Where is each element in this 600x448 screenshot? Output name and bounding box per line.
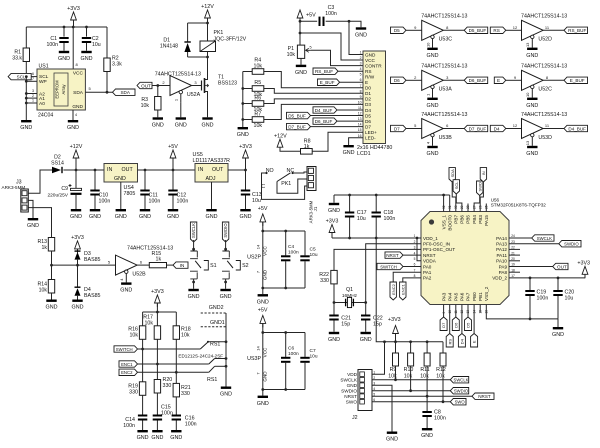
wire input node [50,264,115,267]
svg-text:13: 13 [525,42,530,47]
wire J3 pin3 input [28,208,51,238]
svg-text:GND: GND [175,123,187,129]
ground U52B enable [120,282,132,293]
svg-text:14: 14 [255,244,260,249]
svg-text:+3V3: +3V3 [577,260,590,266]
net tag ENC2 (MCU) [390,272,421,300]
svg-text:D1: D1 [365,91,371,96]
transistor T1 BSS123 [192,57,238,117]
svg-text:GND: GND [220,392,232,398]
wire PF0 to crystal [366,244,421,303]
resistor R11 [420,342,430,396]
svg-text:D4: D4 [365,108,371,113]
svg-text:100n: 100n [384,216,396,222]
ground address pins [20,120,32,131]
svg-text:15: 15 [358,128,362,132]
svg-text:16MHz: 16MHz [342,293,358,299]
svg-text:PK1: PK1 [214,30,224,36]
ground J2 [386,432,398,443]
net tag D4 (input U53D) [490,125,521,131]
svg-text:7: 7 [32,77,34,81]
svg-text:33.k: 33.k [12,56,22,62]
svg-text:SWO: SWO [455,400,466,405]
svg-text:PF0-OSC_IN: PF0-OSC_IN [423,242,450,247]
wire VDDA tie [417,238,421,261]
ground U52D enable [526,48,538,59]
wire +3V3 rail EEPROM [26,26,107,28]
wire buffer out [137,264,149,266]
diode D1 1N4148 [160,23,191,57]
svg-text:OUT: OUT [212,167,224,173]
svg-text:SDA: SDA [120,90,130,95]
svg-text:GND: GND [360,337,372,343]
svg-text:2: 2 [32,94,34,98]
wire US5 ADJ [211,182,213,209]
wire R5 to D1 [264,89,363,94]
ground US5 [206,209,218,220]
ground VSS_2 [552,327,564,338]
svg-text:GND: GND [328,208,340,214]
svg-text:ENC1: ENC1 [121,362,133,367]
ground U53A enable [427,98,439,109]
svg-text:5: 5 [310,45,312,49]
svg-text:+5V: +5V [306,13,316,19]
wire VSS_1 to rail [443,195,445,212]
svg-text:E: E [365,80,368,85]
svg-text:U52B: U52B [132,271,146,277]
svg-text:SWDIO: SWDIO [341,389,357,394]
encoder frame ground GND2 [201,305,226,313]
svg-text:PA3: PA3 [441,292,446,301]
net tag D4_BUF [313,107,363,113]
power +3V3 (encoder) [151,289,164,312]
net tag SWCLK (switch) [190,222,196,242]
svg-text:VCC: VCC [263,245,268,255]
ground S1 [188,289,200,300]
svg-text:VSS_2: VSS_2 [484,286,489,301]
diode D4 BAS85 [75,265,101,299]
ground D4 [72,300,84,311]
svg-text:VDD_1: VDD_1 [423,236,438,241]
ground C10 [89,209,101,220]
svg-text:PA8: PA8 [499,270,508,275]
net tag IN (MCU) [480,168,486,212]
svg-text:PA14: PA14 [496,236,507,241]
svg-text:NRST: NRST [344,394,357,399]
svg-text:13: 13 [358,117,362,121]
ground U53B enable [427,146,439,157]
wire GND rail above MCU [334,194,450,197]
ground U53D enable [526,146,538,157]
svg-text:STM32F051K8T6-TQFP32: STM32F051K8T6-TQFP32 [491,203,547,208]
ground U52A enable [175,103,187,129]
net tag SWITCH [114,346,138,352]
svg-text:SWDIO: SWDIO [223,223,228,238]
net tag NRST (SWD) [472,393,494,399]
wire J3 pin1 +12V [28,170,52,193]
svg-text:GND: GND [151,435,163,441]
svg-text:D2: D2 [365,97,371,102]
svg-text:PA12: PA12 [496,247,507,252]
resistor R3 [141,86,161,118]
svg-text:100n: 100n [288,250,299,256]
svg-text:330: 330 [129,389,138,395]
svg-text:E_BUF: E_BUF [320,80,335,85]
svg-text:RS: RS [447,339,452,345]
svg-text:IN: IN [481,171,486,175]
svg-text:330: 330 [181,391,190,397]
svg-text:D7_BUF: D7_BUF [288,124,306,129]
svg-text:9: 9 [360,95,362,99]
svg-text:U53B: U53B [439,135,453,141]
capacitor C1 [46,27,68,51]
svg-text:14: 14 [255,346,260,351]
capacitor C13 [241,170,262,209]
svg-text:GND: GND [139,214,151,220]
svg-text:100n: 100n [185,422,197,428]
buffer U52D [513,14,568,48]
net tag D7 (MCU) [440,305,447,331]
svg-text:LED-: LED- [365,136,376,141]
svg-text:GND: GND [526,103,538,109]
svg-text:GND: GND [72,104,83,110]
net tag D4_BUF (output U53D) [543,125,587,131]
net tag SWCLK (MCU) [509,235,554,241]
net tag D6 (MCU) [452,305,459,331]
net tag SWITCH (MCU) [377,263,421,269]
wire US1 GND pin [72,110,74,120]
svg-text:15p: 15p [373,322,382,328]
wire SWO line [372,400,450,403]
svg-text:GND: GND [115,214,127,220]
svg-text:12: 12 [513,123,518,128]
svg-text:ED1212S-24C24-2SF: ED1212S-24C24-2SF [178,353,223,358]
svg-text:SCL: SCL [17,74,26,79]
net tag D4 (MCU) [458,305,465,348]
svg-text:GND: GND [170,435,182,441]
svg-text:SWDIO: SWDIO [564,242,579,247]
svg-text:GND: GND [263,269,268,280]
wire SWCLK line [372,378,450,381]
wire NO to J1 pin3 [262,173,308,199]
svg-text:PB0: PB0 [472,292,477,301]
svg-text:R7: R7 [254,111,261,117]
svg-text:D7: D7 [365,124,371,129]
svg-text:S2: S2 [242,263,249,269]
svg-text:C6: C6 [288,346,294,352]
ground C12 [167,209,179,220]
wire diode to drain node [188,56,209,59]
svg-text:PA9: PA9 [499,264,508,269]
net tag ENC2 [119,369,138,375]
ground C13 [240,209,252,220]
svg-text:ADJ: ADJ [206,176,216,182]
wire ENC1 line [138,363,209,366]
net tag ENC1 (MCU) [400,278,421,300]
svg-text:GND: GND [427,151,439,157]
svg-text:PA2: PA2 [423,276,432,281]
svg-text:10k: 10k [129,333,138,339]
svg-text:GND: GND [72,305,84,311]
svg-text:1k: 1k [304,144,310,150]
svg-text:10u: 10u [252,198,261,204]
svg-text:PB3: PB3 [478,215,483,224]
svg-text:D6_BUF: D6_BUF [469,78,487,83]
wire R1 column to ground [25,76,27,120]
svg-text:GND: GND [295,70,307,76]
svg-text:U53A: U53A [439,87,453,93]
ground US4 [115,209,127,220]
svg-text:SWCLK: SWCLK [537,236,552,241]
svg-text:E: E [497,78,500,83]
svg-text:GND: GND [421,433,433,439]
svg-text:NRST: NRST [423,253,436,258]
svg-text:12: 12 [358,112,362,116]
relay contact NC label [287,168,295,174]
ground ladder [237,127,249,138]
svg-text:10u: 10u [92,42,101,48]
svg-text:OUT: OUT [557,264,567,269]
net tag D7_BUF (output U53B) [443,125,487,131]
wire encoder pullup rail [143,311,177,314]
svg-text:A0: A0 [39,101,45,107]
wire WP/address pins [26,81,37,103]
wire VDD_1 line [332,237,421,240]
svg-text:NRST: NRST [386,253,399,258]
ground T1 source [202,117,214,128]
net tag E_BUF (output U52C) [543,77,587,83]
svg-text:GND: GND [81,56,93,62]
svg-text:D4_BUF: D4_BUF [568,126,586,131]
net tag SDA (MCU) [449,168,456,212]
potentiometer P1 [287,45,312,58]
svg-text:10k: 10k [181,333,190,339]
svg-text:330: 330 [163,383,172,389]
svg-text:PB7: PB7 [454,215,459,224]
capacitor C22 [361,303,383,332]
ground rail left [328,195,340,214]
wire LCD VCC pin [300,33,363,60]
capacitor C8 [422,396,445,428]
relay PK1 contact label [281,181,291,187]
svg-text:16: 16 [358,134,362,138]
svg-text:74AHCT125S14-13: 74AHCT125S14-13 [421,64,467,70]
net tag E (MCU) [471,305,478,348]
wire NRST line [372,395,472,398]
net tag OUT (MCU) [509,263,568,269]
svg-text:SDA: SDA [450,169,455,178]
ground J3 [27,218,39,229]
svg-text:GND: GND [188,294,200,300]
svg-text:GND: GND [526,53,538,59]
svg-text:3: 3 [360,62,362,66]
net tag OUT [137,82,152,88]
svg-text:PA6: PA6 [460,292,465,301]
svg-text:SWDIO: SWDIO [454,389,469,394]
svg-text:IN: IN [180,263,185,268]
svg-text:GND: GND [240,214,252,220]
relay coil PK1 [200,23,247,57]
wire SWDIO line [372,389,450,392]
svg-text:100n: 100n [434,416,446,422]
svg-text:8: 8 [360,89,362,93]
wire R6 to D2 [264,99,363,104]
svg-text:GND: GND [152,123,164,129]
svg-text:100n: 100n [288,351,299,357]
wire US4 GND [120,182,122,209]
svg-text:US2P: US2P [247,255,261,261]
svg-text:GND: GND [386,437,398,443]
svg-text:VCC: VCC [263,347,268,357]
net tag D6_BUF [313,118,363,124]
svg-text:4: 4 [75,113,77,117]
net tag ENC1 [119,361,138,367]
wire +12V rail [188,22,209,25]
svg-text:10k: 10k [254,64,263,70]
svg-text:10: 10 [358,100,362,104]
svg-text:IN: IN [198,167,203,173]
net tag D6 (input U53A) [391,77,422,83]
svg-text:SDA: SDA [73,90,84,96]
svg-text:D6: D6 [365,119,371,124]
relay contact NO label [266,168,274,174]
svg-text:2x16 HD44780: 2x16 HD44780 [357,145,392,151]
svg-text:US3P: US3P [247,356,261,362]
ground C21 [328,332,340,343]
power +12V (backlight) [274,134,301,152]
wire R7 to D3 [264,104,363,119]
svg-text:GND: GND [263,371,268,382]
power pins US2P [247,206,318,305]
svg-text:BAS85: BAS85 [84,293,101,299]
svg-text:D5: D5 [466,322,471,328]
power +12V (relay) [201,4,214,23]
ground C22 [360,332,372,343]
resistor R9 [388,342,398,380]
svg-text:D7_BUF: D7_BUF [469,126,487,131]
wire ENC2 line [138,371,209,374]
svg-text:1N4148: 1N4148 [160,44,178,50]
svg-text:100n: 100n [177,199,189,205]
svg-text:10u: 10u [565,296,574,302]
power +3V3 (EEPROM) [67,6,80,27]
net tag SDA [113,89,136,95]
net tag SWCLK (SWD) [450,377,468,383]
svg-text:1k: 1k [42,245,48,251]
svg-text:10u: 10u [310,354,318,360]
svg-text:BAS85: BAS85 [84,257,101,263]
svg-text:100n: 100n [161,411,173,417]
connector J1 ARK3-5MM [307,167,318,224]
wire PF1 to R22 [334,249,421,270]
resistor R12 [436,342,446,402]
svg-text:10k: 10k [254,123,263,129]
net tag IN [173,262,188,268]
svg-text:IN: IN [107,167,112,173]
junctions address bus [25,75,28,104]
capacitor C19 [525,278,548,319]
connector J2 [340,370,375,422]
wire encoder common ground [225,313,228,387]
wire SWD 3V3 rail [376,238,443,343]
svg-text:U53D: U53D [538,135,552,141]
capacitor C9 220u/25V [47,170,81,209]
IC US1 24C04 [32,64,85,119]
LCD module LCD1 2x16 HD44780 [357,51,392,158]
wire +3V3 rail [228,169,247,172]
svg-text:+12V: +12V [70,144,83,150]
ground R3 [152,117,164,128]
svg-text:3.3k: 3.3k [112,62,122,68]
svg-text:ENC2: ENC2 [121,370,133,375]
encoder ED1212S-24C24-2SF [178,353,226,383]
svg-text:D3: D3 [365,102,371,107]
svg-text:330: 330 [320,278,329,284]
svg-text:10u: 10u [310,252,318,258]
svg-text:PA7: PA7 [466,292,471,301]
svg-text:GND: GND [552,332,564,338]
svg-text:RS1: RS1 [207,377,217,383]
svg-text:GND1: GND1 [210,320,225,326]
power +3V3 (clamp) [71,235,84,253]
net tag SWDIO (SWD) [450,388,469,394]
svg-text:GND: GND [427,103,439,109]
svg-text:GND: GND [137,435,149,441]
ground R14 [46,300,58,311]
svg-text:PA0: PA0 [423,264,432,269]
regulator US5 LD1117AS337R [193,152,231,182]
net tag RS_BUF (output U52D) [543,27,587,33]
diode D2 SS14 [51,155,76,174]
resistor R17 [143,312,160,364]
resistor R14 [37,265,54,299]
wire J2 VDD [372,342,385,374]
svg-text:ENC2: ENC2 [391,283,396,294]
svg-text:3: 3 [32,89,34,93]
capacitor C20 [553,278,574,319]
svg-text:GND: GND [67,125,79,131]
svg-text:C9: C9 [61,186,68,192]
svg-text:100n: 100n [149,199,161,205]
switch S2 [222,240,249,289]
svg-text:10u: 10u [357,216,366,222]
capacitor C14 [123,415,147,431]
net tag SWDIO (MCU) [509,241,581,247]
capacitor C12 [168,170,188,209]
svg-text:R12: R12 [436,367,446,373]
svg-text:GND: GND [237,132,249,138]
svg-text:100n: 100n [46,42,58,48]
ground C11 [139,209,151,220]
svg-text:VDDA: VDDA [423,259,437,264]
svg-text:D4: D4 [494,126,500,131]
ground LED- [343,145,355,156]
svg-text:D4_BUF: D4_BUF [315,108,333,113]
svg-text:SWO: SWO [346,400,358,405]
svg-text:+5V: +5V [258,206,268,212]
svg-text:7: 7 [360,84,362,88]
ground C2 [81,51,93,62]
net tag SWO (MCU) [474,181,483,212]
ground U53C enable [427,48,439,59]
svg-text:100n: 100n [537,296,549,302]
svg-text:6: 6 [32,72,34,76]
resistor R20 [154,364,172,415]
svg-text:R10: R10 [404,367,414,373]
svg-text:RS: RS [365,69,372,74]
svg-text:74AHCT125S14-13: 74AHCT125S14-13 [127,245,173,251]
svg-text:LED+: LED+ [365,130,377,135]
